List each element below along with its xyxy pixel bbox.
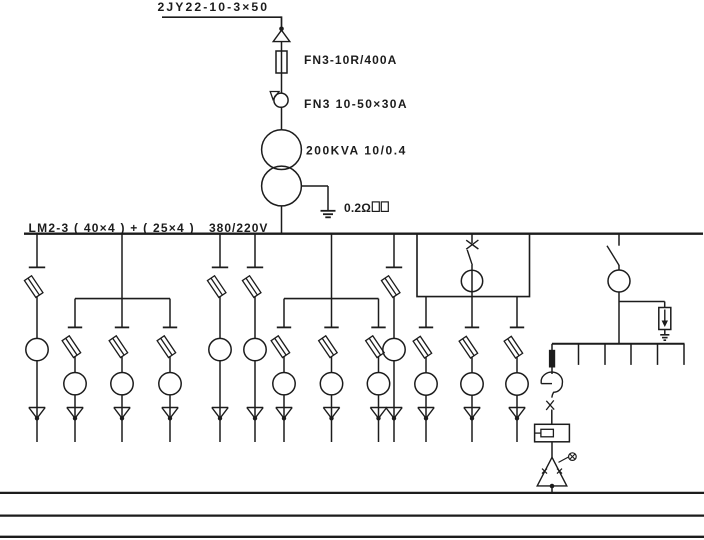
outgoing arrow feeder F1 <box>29 407 45 409</box>
wire fuse to meter feeder F4 <box>219 296 221 338</box>
igniter circle with cross <box>559 457 569 463</box>
wire protective earth line PE <box>0 514 704 516</box>
fuse FU1 body <box>276 51 287 73</box>
svg-text:FN3 10-50×30A: FN3 10-50×30A <box>304 97 408 111</box>
svg-text:380/220V: 380/220V <box>209 221 268 235</box>
circuit breaker cross mark <box>466 240 478 249</box>
wire right header drop group G2- <box>378 299 380 328</box>
wire busbar drop feeder F5 <box>254 234 256 268</box>
fuse-switch slanted fuse branch G2-1 <box>271 336 290 358</box>
outgoing arrow feeder F4 <box>212 407 228 409</box>
wire ballast to lamp <box>551 442 553 458</box>
wire lighting panel stub 1 <box>578 344 580 365</box>
kWh meter circle branch G1-1 <box>64 373 86 395</box>
drop-out fuse cutout FU2 <box>270 92 279 100</box>
kWh meter circle feeder F4 <box>209 338 231 360</box>
kWh meter circle feeder F1 <box>26 338 48 360</box>
wire sub-bus header group G1- <box>75 298 170 300</box>
wire cabinet bottom drop branch M2 <box>471 297 473 328</box>
outgoing arrow branch G2-3 <box>370 407 386 409</box>
wire transformer secondary to busbar <box>281 206 283 234</box>
wire left header drop group G1- <box>74 299 76 328</box>
switch contact bar branch M2 <box>465 326 479 328</box>
wire lamp to neutral line <box>551 486 553 493</box>
wire right header drop group G1- <box>169 299 171 328</box>
wire meter to outgoing branch M1 <box>425 395 427 442</box>
wire lighting meter to panel bus <box>618 292 620 344</box>
outgoing arrow branch G1-1 <box>67 407 83 409</box>
svg-text:0.2Ω: 0.2Ω <box>344 201 371 215</box>
wire bottom border line <box>0 536 704 538</box>
metering cabinet box outline <box>417 234 530 297</box>
svg-text:200KVA 10/0.4: 200KVA 10/0.4 <box>306 144 407 158</box>
wire cabinet bottom drop branch M1 <box>425 297 427 328</box>
wire meter to outgoing feeder F1 <box>36 361 38 442</box>
wire fuse to meter branch G2-2 <box>331 356 333 372</box>
kWh meter circle branch G1-3 <box>159 373 181 395</box>
wire busbar drop metering circuit <box>471 234 473 244</box>
switch contact bar feeder F5 <box>247 266 263 268</box>
kWh meter circle branch G2-3 <box>367 373 389 395</box>
node lamp neutral dot <box>550 484 555 489</box>
wire fuse to cutout <box>281 73 283 93</box>
outgoing arrow branch G2-2 <box>323 407 339 409</box>
wire fuse to meter branch M2 <box>471 357 473 373</box>
wire fuse to meter branch G1-2 <box>121 356 123 372</box>
wire centre header drop group G2- <box>331 299 333 328</box>
switch contact bar feeder F9 <box>386 266 402 268</box>
wire lighting lamp branch drop <box>551 344 553 350</box>
surge arrester FV (box with arrow) <box>659 308 671 330</box>
outgoing arrow branch G1-2 <box>114 407 130 409</box>
meter circle in metering cabinet <box>461 270 482 291</box>
disconnect switch blade lighting feeder <box>607 246 619 266</box>
lighting panel bus <box>552 343 685 345</box>
wire fuse to meter branch M1 <box>425 357 427 373</box>
wire fuse to meter feeder F9 <box>393 296 395 338</box>
wire fuse to meter branch G2-3 <box>378 356 380 372</box>
wire fuse to meter branch G2-1 <box>283 356 285 372</box>
ballast box <box>535 424 570 442</box>
outgoing arrow branch M1 <box>418 407 434 409</box>
wire arrester to ground <box>664 330 666 335</box>
switch contact bar feeder F1 <box>29 266 45 268</box>
svg-text:2JY22-10-3×50: 2JY22-10-3×50 <box>158 0 270 14</box>
wire meter to outgoing branch G2-2 <box>331 395 333 442</box>
wire sub-bus header group G2- <box>284 298 379 300</box>
kWh meter circle branch M2 <box>461 373 483 395</box>
wire fuse to meter feeder F1 <box>36 296 38 338</box>
outgoing arrow branch G2-1 <box>276 407 292 409</box>
wire arrester to fuse <box>281 42 283 51</box>
transformer T1 primary winding <box>262 130 302 170</box>
wire busbar drop feeder F9 <box>393 234 395 268</box>
fuse-switch FU5 (slanted fuse) feeder F5 <box>242 276 261 298</box>
thermal element cross <box>546 401 554 410</box>
switch contact bar branch M1 <box>419 326 433 328</box>
switch contact bar branch G2-3 <box>371 326 385 328</box>
wire fuse to photocell <box>551 368 553 375</box>
lamp cross mark left <box>542 469 547 474</box>
wire blade to meter <box>471 265 473 271</box>
wire fuse to meter branch G1-1 <box>74 356 76 372</box>
wire incoming overhead line <box>162 16 282 18</box>
wire busbar drop lighting feeder <box>618 234 620 246</box>
wire busbar drop group G2- <box>331 234 333 299</box>
wire meter to outgoing branch G1-2 <box>121 395 123 442</box>
wire lighting panel stub 4 <box>657 344 659 365</box>
wire fuse to meter branch M3 <box>516 357 518 373</box>
fuse-switch slanted fuse branch G2-2 <box>319 336 338 358</box>
kWh meter circle branch G2-2 <box>320 373 342 395</box>
svg-text:FN3-10R/400A: FN3-10R/400A <box>304 53 397 67</box>
transformer T1 secondary winding <box>262 166 302 206</box>
wire meter to outgoing branch G2-3 <box>378 395 380 442</box>
svg-text:LM2-3 ( 40×4 ) + ( 25×4 ): LM2-3 ( 40×4 ) + ( 25×4 ) <box>29 221 195 235</box>
wire left header drop group G2- <box>283 299 285 328</box>
wire meter to outgoing branch G1-3 <box>169 395 171 442</box>
fuse (solid) lamp branch <box>549 350 555 368</box>
wire fuse to meter feeder F5 <box>254 296 256 338</box>
wire blade to lighting meter <box>618 265 620 270</box>
wire busbar drop group G1- <box>121 234 123 299</box>
fuse-switch slanted fuse branch M3 <box>504 336 523 358</box>
wire meter to outgoing feeder F4 <box>219 361 221 442</box>
kWh meter circle lighting feeder <box>608 270 630 292</box>
fuse-switch slanted fuse branch G1-3 <box>157 336 176 358</box>
wire busbar drop feeder F1 <box>36 234 38 268</box>
fuse-switch slanted fuse branch G1-2 <box>109 336 128 358</box>
ground symbol of surge arrester <box>660 334 669 336</box>
fuse-switch slanted fuse branch M1 <box>413 336 432 358</box>
fuse-switch FU4 (slanted fuse) feeder F4 <box>207 276 226 298</box>
wire meter to outgoing branch G2-1 <box>283 395 285 442</box>
fuse-switch FU1 (slanted fuse) feeder F1 <box>24 276 43 298</box>
fuse-switch slanted fuse branch M2 <box>459 336 478 358</box>
kWh meter circle branch M3 <box>506 373 528 395</box>
kWh meter circle feeder F5 <box>244 338 266 360</box>
switch blade in metering circuit <box>467 250 472 265</box>
node incoming connection dot <box>279 27 284 32</box>
kWh meter circle branch M1 <box>415 373 437 395</box>
wire meter to outgoing branch G1-1 <box>74 395 76 442</box>
wire to ballast <box>551 410 553 425</box>
wire fuse to meter branch G1-3 <box>169 356 171 372</box>
kWh meter circle branch G2-1 <box>273 373 295 395</box>
wire neutral line N <box>0 492 704 494</box>
ground symbol of transformer <box>321 210 336 212</box>
busbar LV 380/220V <box>24 233 703 235</box>
wire branch to surge arrester <box>619 301 665 303</box>
fuse-switch slanted fuse branch G2-3 <box>366 336 385 358</box>
outgoing arrow feeder F5 <box>247 407 263 409</box>
wire meter to outgoing feeder F5 <box>254 361 256 442</box>
wire meter to outgoing feeder F9 <box>393 361 395 442</box>
wire meter to outgoing branch M3 <box>516 395 518 442</box>
switch contact bar branch G1-3 <box>163 326 177 328</box>
lamp cross mark right <box>557 469 562 474</box>
switch contact bar branch G2-2 <box>324 326 338 328</box>
gas discharge lamp triangle <box>537 457 567 486</box>
outgoing arrow branch G1-3 <box>162 407 178 409</box>
wire busbar drop feeder F4 <box>219 234 221 268</box>
fuse-switch slanted fuse branch G1-1 <box>62 336 81 358</box>
wire meter to outgoing branch M2 <box>471 395 473 442</box>
wire lighting panel stub 5 <box>683 344 685 365</box>
switch contact bar branch G2-1 <box>277 326 291 328</box>
outgoing arrow branch M3 <box>509 407 525 409</box>
wire transformer neutral to ground <box>301 185 328 187</box>
switch contact bar branch M3 <box>510 326 524 328</box>
wire lighting panel stub 3 <box>630 344 632 365</box>
fuse-switch FU9 (slanted fuse) feeder F9 <box>381 276 400 298</box>
outgoing arrow feeder F9 <box>386 407 402 409</box>
photocell hook contact <box>541 383 552 385</box>
kWh meter circle branch G1-2 <box>111 373 133 395</box>
switch contact bar branch G1-2 <box>115 326 129 328</box>
wire centre header drop group G1- <box>121 299 123 328</box>
arrester FB1 (triangle) <box>273 30 290 41</box>
wire lighting panel stub 2 <box>604 344 606 365</box>
switch contact bar branch G1-1 <box>68 326 82 328</box>
kWh meter circle feeder F9 <box>383 338 405 360</box>
switch contact bar feeder F4 <box>212 266 228 268</box>
wire cabinet bottom drop branch M3 <box>516 297 518 328</box>
outgoing arrow branch M2 <box>464 407 480 409</box>
